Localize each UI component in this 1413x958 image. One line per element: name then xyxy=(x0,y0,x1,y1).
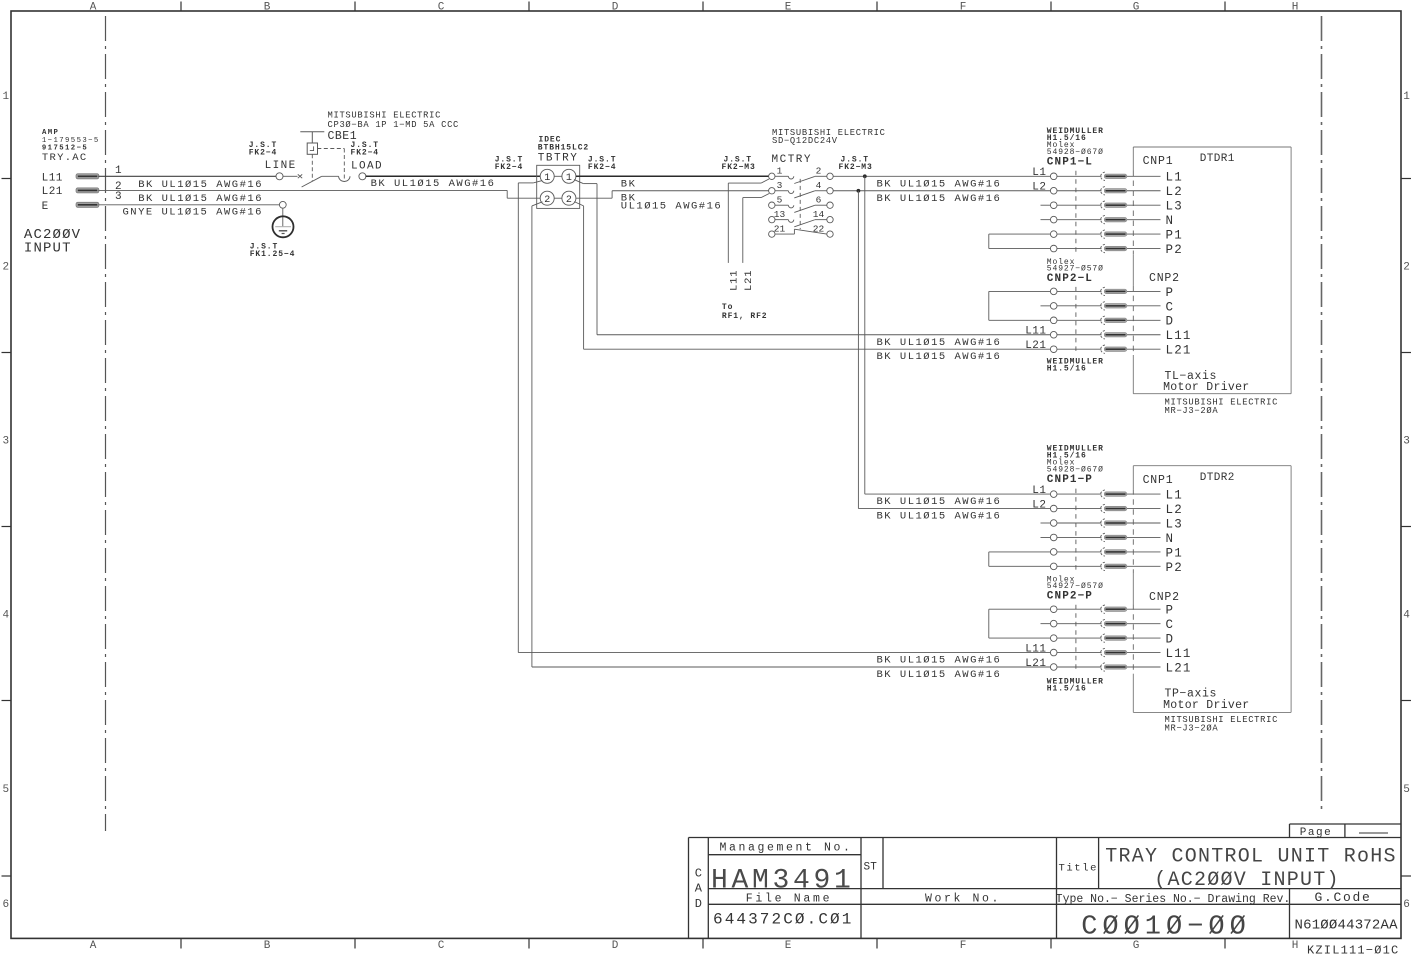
svg-text:E: E xyxy=(42,201,49,213)
svg-text:Page: Page xyxy=(1300,827,1332,839)
svg-text:CNP1−L: CNP1−L xyxy=(1047,156,1093,168)
svg-text:Motor Driver: Motor Driver xyxy=(1163,699,1249,712)
svg-text:L2: L2 xyxy=(1032,499,1046,511)
svg-text:L2: L2 xyxy=(1032,182,1046,194)
svg-text:L11: L11 xyxy=(1025,643,1046,655)
svg-text:3: 3 xyxy=(2,436,9,448)
svg-text:Work No.: Work No. xyxy=(925,893,1001,906)
svg-text:RF1, RF2: RF1, RF2 xyxy=(722,312,768,321)
svg-text:P1: P1 xyxy=(1166,546,1183,560)
svg-text:H: H xyxy=(1292,1,1299,13)
svg-text:L2: L2 xyxy=(1166,185,1183,199)
svg-text:D: D xyxy=(612,1,619,13)
svg-text:2: 2 xyxy=(2,262,9,274)
svg-text:L21: L21 xyxy=(743,270,755,291)
svg-text:L21: L21 xyxy=(42,186,63,198)
svg-text:L1: L1 xyxy=(1166,171,1183,185)
svg-text:P2: P2 xyxy=(1166,561,1183,575)
svg-text:L21: L21 xyxy=(1166,661,1192,675)
svg-text:C: C xyxy=(1166,618,1175,632)
svg-text:6: 6 xyxy=(2,899,9,911)
svg-text:BK UL1Ø15 AWG#16: BK UL1Ø15 AWG#16 xyxy=(138,179,263,191)
svg-text:A: A xyxy=(90,940,97,952)
svg-text:TBTRY: TBTRY xyxy=(538,152,579,164)
svg-text:P2: P2 xyxy=(1166,243,1183,257)
svg-text:To: To xyxy=(722,303,733,312)
svg-text:GNYE UL1Ø15 AWG#16: GNYE UL1Ø15 AWG#16 xyxy=(123,207,263,219)
svg-text:D: D xyxy=(1166,315,1175,329)
svg-text:(AC2ØØV INPUT): (AC2ØØV INPUT) xyxy=(1154,869,1340,892)
svg-text:13: 13 xyxy=(774,209,786,220)
svg-text:5: 5 xyxy=(777,195,783,206)
svg-text:B: B xyxy=(264,940,271,952)
svg-text:BK UL1Ø15 AWG#16: BK UL1Ø15 AWG#16 xyxy=(877,178,1002,190)
svg-text:BK UL1Ø15 AWG#16: BK UL1Ø15 AWG#16 xyxy=(877,669,1002,681)
svg-text:14: 14 xyxy=(813,209,825,220)
svg-text:L1: L1 xyxy=(1032,485,1046,497)
svg-text:3: 3 xyxy=(115,191,122,203)
svg-text:6: 6 xyxy=(1403,899,1410,911)
svg-text:TRAY CONTROL UNIT RoHS: TRAY CONTROL UNIT RoHS xyxy=(1105,845,1397,868)
svg-text:P1: P1 xyxy=(1166,229,1183,243)
svg-text:TRY.AC: TRY.AC xyxy=(42,152,88,164)
svg-text:CP3Ø−BA 1P 1−MD 5A CCC: CP3Ø−BA 1P 1−MD 5A CCC xyxy=(328,120,460,130)
svg-text:L1: L1 xyxy=(1166,489,1183,503)
svg-text:BK UL1Ø15 AWG#16: BK UL1Ø15 AWG#16 xyxy=(877,496,1002,508)
svg-text:N61ØØ44372AA: N61ØØ44372AA xyxy=(1295,918,1399,934)
svg-text:L11: L11 xyxy=(729,270,741,291)
svg-text:A: A xyxy=(90,1,97,13)
svg-text:C: C xyxy=(1166,300,1175,314)
svg-text:INPUT: INPUT xyxy=(24,241,72,257)
svg-text:L11: L11 xyxy=(1166,329,1192,343)
svg-text:3: 3 xyxy=(1403,436,1410,448)
svg-text:Motor Driver: Motor Driver xyxy=(1163,381,1249,394)
svg-text:File Name: File Name xyxy=(746,893,832,906)
svg-text:4: 4 xyxy=(2,610,9,622)
svg-text:B: B xyxy=(264,1,271,13)
svg-text:1: 1 xyxy=(544,173,550,184)
svg-text:3: 3 xyxy=(777,180,783,191)
svg-text:E: E xyxy=(785,1,792,13)
svg-text:FK2−M3: FK2−M3 xyxy=(722,163,756,172)
svg-text:1: 1 xyxy=(115,165,122,177)
svg-text:CØØ1Ø−ØØ: CØØ1Ø−ØØ xyxy=(1081,913,1251,943)
svg-text:MCTRY: MCTRY xyxy=(772,154,813,166)
svg-text:L21: L21 xyxy=(1025,658,1046,670)
svg-text:LINE: LINE xyxy=(265,160,297,172)
svg-text:4: 4 xyxy=(816,180,822,191)
svg-text:FK2−4: FK2−4 xyxy=(588,163,617,172)
svg-text:H1.5/16: H1.5/16 xyxy=(1047,685,1087,694)
svg-text:D: D xyxy=(695,897,702,911)
svg-text:L11: L11 xyxy=(1166,647,1192,661)
svg-text:BK UL1Ø15 AWG#16: BK UL1Ø15 AWG#16 xyxy=(138,193,263,205)
svg-text:D: D xyxy=(1166,633,1175,647)
svg-text:C: C xyxy=(438,940,445,952)
svg-text:BTBH15LC2: BTBH15LC2 xyxy=(538,143,589,152)
svg-text:L1: L1 xyxy=(1032,167,1046,179)
svg-text:G.Code: G.Code xyxy=(1314,890,1371,905)
svg-text:4: 4 xyxy=(1403,610,1410,622)
svg-text:LOAD: LOAD xyxy=(351,160,383,172)
svg-text:6: 6 xyxy=(816,195,822,206)
svg-text:KZIL111−Ø1C: KZIL111−Ø1C xyxy=(1307,944,1399,958)
svg-text:E: E xyxy=(785,940,792,952)
svg-text:DTDR1: DTDR1 xyxy=(1200,153,1235,165)
svg-text:CNP1: CNP1 xyxy=(1143,474,1174,487)
svg-text:1: 1 xyxy=(2,91,9,103)
svg-text:BK UL1Ø15 AWG#16: BK UL1Ø15 AWG#16 xyxy=(877,511,1002,523)
svg-text:N: N xyxy=(1166,214,1175,228)
svg-text:FK2−M3: FK2−M3 xyxy=(839,163,873,172)
svg-text:F: F xyxy=(960,940,967,952)
svg-text:D: D xyxy=(612,940,619,952)
svg-text:644372CØ.CØ1: 644372CØ.CØ1 xyxy=(713,911,853,929)
svg-text:L2: L2 xyxy=(1166,503,1183,517)
svg-text:C: C xyxy=(695,867,702,881)
svg-text:A: A xyxy=(695,882,703,896)
svg-text:FK2−4: FK2−4 xyxy=(249,148,278,157)
svg-text:Management No.: Management No. xyxy=(719,842,852,855)
svg-text:1: 1 xyxy=(566,173,572,184)
svg-text:L21: L21 xyxy=(1025,340,1046,352)
svg-text:BK UL1Ø15 AWG#16: BK UL1Ø15 AWG#16 xyxy=(877,655,1002,667)
svg-text:5: 5 xyxy=(1403,784,1410,796)
svg-text:N: N xyxy=(1166,532,1175,546)
svg-text:DTDR2: DTDR2 xyxy=(1200,472,1235,484)
svg-text:CNP2−P: CNP2−P xyxy=(1047,591,1093,603)
svg-text:H1.5/16: H1.5/16 xyxy=(1047,365,1087,374)
svg-text:2: 2 xyxy=(544,195,550,206)
svg-text:L3: L3 xyxy=(1166,200,1183,214)
svg-text:1: 1 xyxy=(1403,91,1410,103)
svg-text:2: 2 xyxy=(816,166,822,177)
svg-text:F: F xyxy=(960,1,967,13)
svg-text:L3: L3 xyxy=(1166,517,1183,531)
svg-text:FK2−4: FK2−4 xyxy=(495,163,524,172)
svg-text:AMP: AMP xyxy=(42,129,59,137)
svg-text:Type No.− Series No.− Drawing: Type No.− Series No.− Drawing Rev. xyxy=(1056,893,1291,906)
svg-text:ST: ST xyxy=(864,862,878,874)
svg-text:CNP2: CNP2 xyxy=(1149,272,1180,285)
svg-text:L11: L11 xyxy=(42,172,63,184)
svg-text:21: 21 xyxy=(774,224,786,235)
svg-text:C: C xyxy=(438,1,445,13)
svg-text:1: 1 xyxy=(777,166,783,177)
svg-text:CNP1−P: CNP1−P xyxy=(1047,474,1093,486)
svg-text:BK UL1Ø15 AWG#16: BK UL1Ø15 AWG#16 xyxy=(877,193,1002,205)
svg-text:SD−Q12DC24V: SD−Q12DC24V xyxy=(772,136,838,146)
svg-text:G: G xyxy=(1133,1,1140,13)
svg-text:P: P xyxy=(1166,286,1175,300)
svg-text:Title: Title xyxy=(1059,863,1099,875)
svg-text:UL1Ø15 AWG#16: UL1Ø15 AWG#16 xyxy=(621,200,722,212)
svg-text:BK UL1Ø15 AWG#16: BK UL1Ø15 AWG#16 xyxy=(877,351,1002,363)
svg-text:BK UL1Ø15 AWG#16: BK UL1Ø15 AWG#16 xyxy=(877,337,1002,349)
svg-text:P: P xyxy=(1166,604,1175,618)
svg-text:BK UL1Ø15 AWG#16: BK UL1Ø15 AWG#16 xyxy=(371,178,496,190)
svg-text:H: H xyxy=(1292,940,1299,952)
svg-text:CNP1: CNP1 xyxy=(1143,155,1174,168)
svg-text:CNP2: CNP2 xyxy=(1149,591,1180,604)
svg-text:CNP2−L: CNP2−L xyxy=(1047,273,1093,285)
svg-text:FK1.25−4: FK1.25−4 xyxy=(250,250,296,259)
svg-text:MR−J3−2ØA: MR−J3−2ØA xyxy=(1165,724,1219,734)
svg-text:L11: L11 xyxy=(1025,326,1046,338)
svg-text:MR−J3−2ØA: MR−J3−2ØA xyxy=(1165,406,1219,416)
svg-text:2: 2 xyxy=(1403,262,1410,274)
svg-text:2: 2 xyxy=(566,195,572,206)
svg-text:FK2−4: FK2−4 xyxy=(351,148,380,157)
svg-text:BK: BK xyxy=(621,178,637,190)
svg-text:5: 5 xyxy=(2,784,9,796)
svg-text:L21: L21 xyxy=(1166,344,1192,358)
